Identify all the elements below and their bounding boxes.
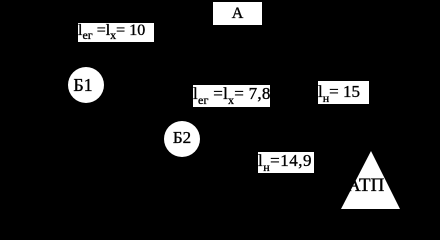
node B1 (circle) (68, 67, 104, 103)
node A (rectangle terminal) (213, 2, 262, 25)
node ATP label (347, 176, 384, 195)
label l_n = 15 (318, 81, 369, 104)
label l_eg = l_x = 10 (78, 23, 154, 42)
label l_n = 14,9 (258, 152, 314, 173)
node A label (213, 2, 262, 25)
node B2 (circle) (164, 121, 200, 157)
label l_eg = l_x = 7,8 (193, 85, 270, 107)
